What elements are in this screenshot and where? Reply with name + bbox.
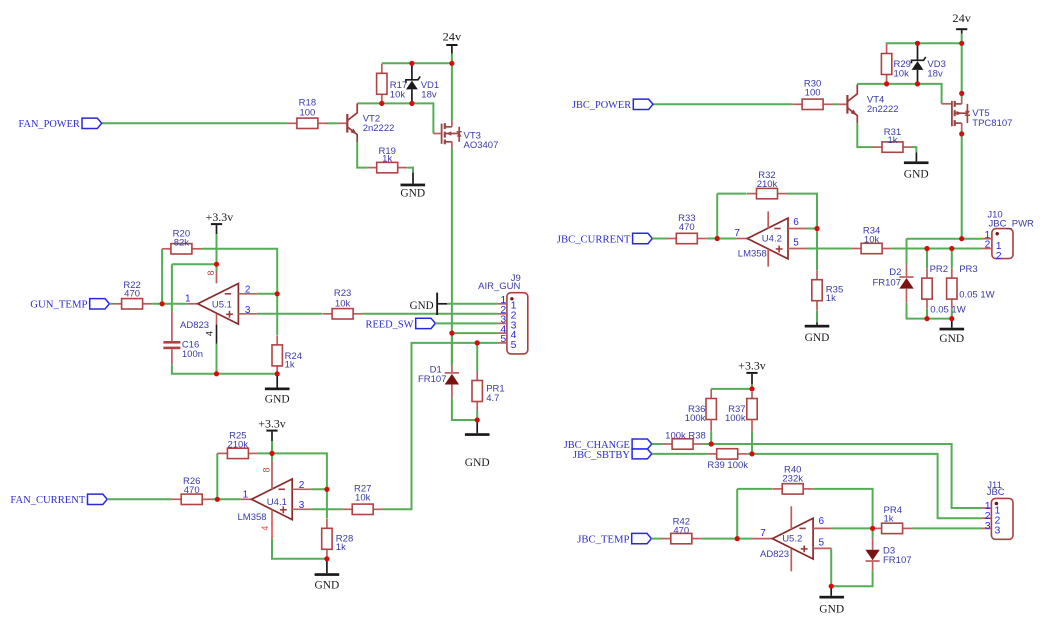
svg-text:3: 3 xyxy=(299,500,305,511)
svg-text:FR107: FR107 xyxy=(418,374,447,385)
svg-text:1k: 1k xyxy=(884,513,894,524)
svg-text:FAN_POWER: FAN_POWER xyxy=(19,118,81,130)
svg-text:2: 2 xyxy=(985,239,991,251)
svg-text:U5.2: U5.2 xyxy=(782,533,802,544)
svg-text:100: 100 xyxy=(805,87,821,98)
svg-text:GND: GND xyxy=(465,455,490,469)
svg-text:1: 1 xyxy=(243,489,249,500)
svg-text:PR3: PR3 xyxy=(959,264,977,275)
svg-text:GND: GND xyxy=(315,577,340,591)
svg-text:GND: GND xyxy=(400,186,425,200)
svg-text:+3.3v: +3.3v xyxy=(258,417,286,431)
svg-text:PR2: PR2 xyxy=(930,264,948,275)
svg-text:JBC_CURRENT: JBC_CURRENT xyxy=(557,233,631,245)
svg-text:5: 5 xyxy=(819,538,825,549)
svg-text:2: 2 xyxy=(299,480,305,491)
svg-text:10k: 10k xyxy=(864,234,880,245)
svg-text:24v: 24v xyxy=(952,11,971,25)
svg-text:210k: 210k xyxy=(227,439,248,450)
svg-text:AD823: AD823 xyxy=(760,549,789,560)
svg-text:+3.3v: +3.3v xyxy=(206,210,234,224)
svg-text:5: 5 xyxy=(500,333,506,345)
svg-text:10k: 10k xyxy=(355,493,371,504)
svg-text:7: 7 xyxy=(760,528,766,539)
svg-text:2n2222: 2n2222 xyxy=(867,104,899,115)
svg-text:GND: GND xyxy=(904,166,929,180)
svg-text:1k: 1k xyxy=(285,360,295,371)
svg-text:100k: 100k xyxy=(685,413,706,424)
svg-text:1k: 1k xyxy=(382,153,392,164)
svg-text:FR107: FR107 xyxy=(883,555,912,566)
svg-text:AO3407: AO3407 xyxy=(464,140,499,151)
svg-text:100n: 100n xyxy=(182,349,203,360)
svg-text:10k: 10k xyxy=(390,89,406,100)
svg-text:JBC: JBC xyxy=(987,487,1005,498)
svg-text:1: 1 xyxy=(185,294,191,305)
svg-text:AIR_GUN: AIR_GUN xyxy=(478,281,520,292)
svg-text:3: 3 xyxy=(245,305,251,316)
svg-text:100k: 100k xyxy=(725,413,746,424)
svg-text:5: 5 xyxy=(511,339,517,351)
svg-text:GND: GND xyxy=(410,298,434,312)
svg-text:1k: 1k xyxy=(887,135,897,146)
svg-text:+3.3v: +3.3v xyxy=(738,358,766,372)
svg-text:5: 5 xyxy=(793,237,799,248)
svg-text:470: 470 xyxy=(673,525,689,536)
svg-text:0.05 1W: 0.05 1W xyxy=(959,290,994,301)
svg-text:TPC8107: TPC8107 xyxy=(972,118,1012,129)
svg-text:JBC_PWR: JBC_PWR xyxy=(989,218,1035,229)
svg-text:470: 470 xyxy=(124,289,140,300)
svg-text:210k: 210k xyxy=(757,179,778,190)
svg-text:232k: 232k xyxy=(782,473,803,484)
svg-text:FR107: FR107 xyxy=(872,277,901,288)
svg-text:6: 6 xyxy=(793,217,799,228)
svg-text:U5.1: U5.1 xyxy=(212,299,232,310)
svg-text:4.7: 4.7 xyxy=(486,393,499,404)
svg-text:GND: GND xyxy=(819,601,844,615)
svg-text:18v: 18v xyxy=(421,89,437,100)
svg-text:U4.2: U4.2 xyxy=(762,234,782,245)
svg-text:10k: 10k xyxy=(894,68,910,79)
svg-text:470: 470 xyxy=(679,222,695,233)
svg-text:AD823: AD823 xyxy=(180,320,209,331)
svg-text:7: 7 xyxy=(734,228,740,239)
svg-text:2n2222: 2n2222 xyxy=(363,123,395,134)
svg-text:6: 6 xyxy=(819,516,825,527)
svg-text:JBC_SBTBY: JBC_SBTBY xyxy=(573,449,630,461)
svg-text:100: 100 xyxy=(299,108,315,119)
svg-text:3: 3 xyxy=(995,525,1001,537)
svg-text:2: 2 xyxy=(245,284,251,295)
svg-text:8: 8 xyxy=(261,467,271,472)
svg-text:3: 3 xyxy=(985,520,991,532)
svg-text:8: 8 xyxy=(206,270,216,275)
svg-text:FAN_CURRENT: FAN_CURRENT xyxy=(10,494,85,506)
svg-text:2: 2 xyxy=(996,250,1002,262)
svg-text:R39 100k: R39 100k xyxy=(707,460,748,471)
svg-text:LM358: LM358 xyxy=(738,249,767,260)
svg-text:470: 470 xyxy=(184,485,200,496)
svg-text:4: 4 xyxy=(204,331,214,336)
svg-text:JBC_POWER: JBC_POWER xyxy=(572,99,632,111)
svg-text:1k: 1k xyxy=(826,293,836,304)
svg-text:24v: 24v xyxy=(443,30,462,44)
svg-text:4: 4 xyxy=(260,526,270,531)
svg-text:JBC_TEMP: JBC_TEMP xyxy=(577,534,629,546)
svg-text:LM358: LM358 xyxy=(238,512,267,523)
svg-text:GND: GND xyxy=(939,331,964,345)
svg-text:GUN_TEMP: GUN_TEMP xyxy=(30,299,87,311)
svg-text:GND: GND xyxy=(805,330,830,344)
svg-text:0.05 1W: 0.05 1W xyxy=(930,304,965,315)
svg-text:GND: GND xyxy=(265,391,290,405)
svg-text:100k R38: 100k R38 xyxy=(665,430,706,441)
svg-text:1k: 1k xyxy=(336,542,346,553)
svg-text:10k: 10k xyxy=(335,298,351,309)
svg-text:18v: 18v xyxy=(927,68,943,79)
svg-text:82k: 82k xyxy=(174,237,190,248)
svg-text:REED_SW: REED_SW xyxy=(366,318,415,330)
